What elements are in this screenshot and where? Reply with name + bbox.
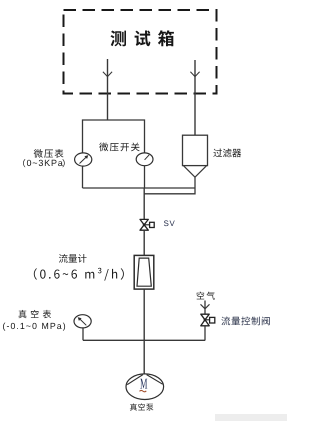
gauge branch rectangle (top + left + right edges) xyxy=(83,120,145,188)
label 微压表 xyxy=(34,149,64,158)
AC tilde under M xyxy=(140,390,147,391)
wire: control valve outlet xyxy=(204,326,206,341)
flow meter FM (流量计) xyxy=(134,255,154,289)
wire: valve SV to flow meter xyxy=(143,230,145,255)
label 微压开关 xyxy=(99,143,139,152)
label 流量计 xyxy=(59,254,87,263)
flow arrow (left pipe, downward) xyxy=(103,72,112,77)
scrollbar fragment bottom right xyxy=(215,414,287,421)
wire: right chamber outlet pipe xyxy=(194,60,196,135)
label (0~3KPa) xyxy=(23,159,25,167)
micro pressure switch (微压开关) xyxy=(136,153,153,166)
label 流量控制阀 xyxy=(221,317,269,326)
wire: air inlet stub xyxy=(204,301,206,315)
label (-0.1~0 MPa) xyxy=(3,323,65,331)
micro pressure gauge P1 (微压表) xyxy=(75,153,92,166)
label 空气 xyxy=(197,292,215,300)
wire: filter outlet drop xyxy=(144,177,195,194)
motor letter M xyxy=(140,379,147,389)
wire: vacuum branch header xyxy=(83,339,205,341)
label 过滤器 xyxy=(213,149,241,158)
wire: main pipe (header to valve SV) xyxy=(143,188,145,219)
flow control valve (流量控制阀) xyxy=(201,314,215,326)
flow arrow (right pipe, downward) xyxy=(190,72,199,77)
solenoid valve SV xyxy=(140,219,154,230)
label 真空泵 xyxy=(130,403,154,410)
filter F1 (过滤器) body xyxy=(183,135,208,177)
test chamber dashed box xyxy=(64,10,217,94)
vacuum gauge (真空表) xyxy=(74,315,91,341)
label 真空表 xyxy=(19,310,52,318)
label 测试箱 xyxy=(111,30,174,46)
wire: left chamber outlet pipe xyxy=(107,59,109,120)
flow arrow (air inlet, downward) xyxy=(201,304,210,309)
wire: flow meter to pump xyxy=(143,289,145,374)
wire: header pipe (bottom edge to filter drop) xyxy=(83,187,196,189)
label (0.6~6 m3/h) xyxy=(34,268,124,281)
label SV xyxy=(164,220,175,226)
vacuum pump (真空泵) motor M xyxy=(126,374,164,400)
